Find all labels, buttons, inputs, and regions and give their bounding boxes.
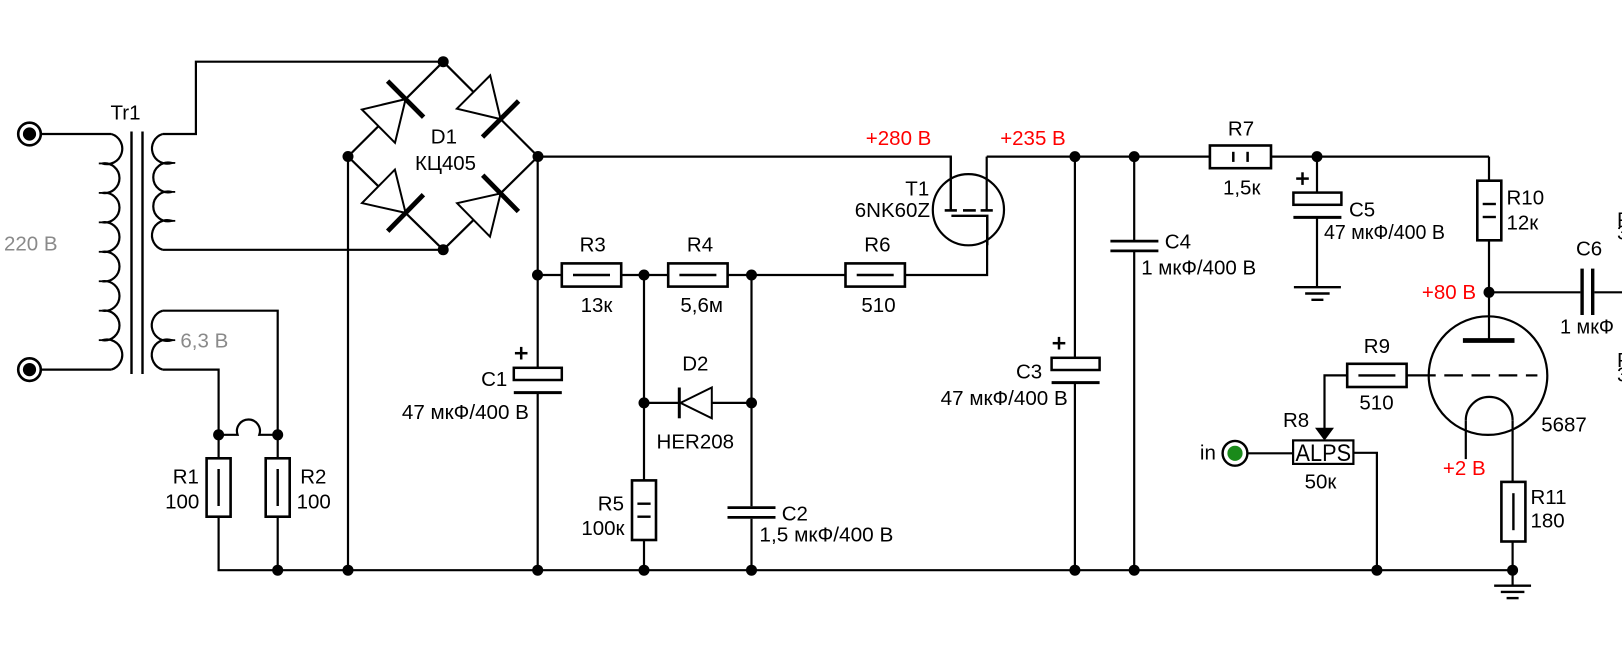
wire <box>1488 292 1490 338</box>
wire <box>1133 251 1135 570</box>
capacitor C3 <box>1016 337 1100 384</box>
svg-text:100к: 100к <box>581 517 625 540</box>
wire <box>750 519 752 570</box>
capacitor C1 <box>481 347 562 393</box>
svg-text:R2: R2 <box>300 466 326 489</box>
wire <box>1488 157 1490 182</box>
capacitor C2 <box>728 503 808 526</box>
wire (humdinger jumper) <box>219 419 278 434</box>
capacitor C5 <box>1293 172 1375 221</box>
junction (bridge top node) <box>438 56 449 67</box>
junction <box>532 565 543 576</box>
svg-text:5,6м: 5,6м <box>680 294 723 317</box>
junction <box>1371 565 1382 576</box>
svg-text:R7: R7 <box>1228 118 1254 141</box>
svg-text:C4: C4 <box>1165 231 1191 254</box>
svg-text:+235 В: +235 В <box>1000 127 1066 150</box>
junction <box>639 397 650 408</box>
terminal X2 (220 V input, bottom) <box>18 358 41 381</box>
svg-text:C5: C5 <box>1349 198 1375 221</box>
svg-text:1 мкФ: 1 мкФ <box>1560 316 1614 339</box>
wire <box>1511 420 1513 482</box>
wire <box>1074 157 1076 358</box>
wire <box>42 369 111 371</box>
svg-text:Tr1: Tr1 <box>111 102 141 125</box>
svg-text:R11: R11 <box>1531 486 1567 509</box>
svg-text:47 мкФ/400 В: 47 мкФ/400 В <box>1324 221 1445 244</box>
svg-text:D1: D1 <box>431 126 457 149</box>
svg-text:C1: C1 <box>481 368 507 391</box>
ground <box>1494 585 1531 587</box>
wire <box>538 157 951 211</box>
wire <box>750 403 752 506</box>
svg-text:R8: R8 <box>1283 409 1309 432</box>
potentiometer R8 ALPS <box>1293 440 1353 467</box>
wire <box>644 402 679 404</box>
wire <box>163 370 219 435</box>
junction (bridge left node) <box>343 151 354 162</box>
wire <box>163 62 444 134</box>
junction <box>1507 565 1518 576</box>
svg-text:180: 180 <box>1531 510 1565 533</box>
wire <box>537 275 539 368</box>
wire <box>1594 291 1622 293</box>
svg-text:13к: 13к <box>581 294 614 317</box>
svg-text:T1: T1 <box>905 178 929 201</box>
svg-text:ALPS: ALPS <box>1296 440 1352 467</box>
svg-text:R3: R3 <box>580 233 606 256</box>
svg-text:+280 В: +280 В <box>866 127 932 150</box>
wire <box>277 435 279 460</box>
svg-text:in: in <box>1200 441 1216 464</box>
wire <box>163 249 444 251</box>
wire <box>987 156 1210 158</box>
ground <box>1294 286 1341 288</box>
svg-text:100: 100 <box>165 491 199 514</box>
svg-text:47 мкФ/400 В: 47 мкФ/400 В <box>941 387 1068 410</box>
svg-text:5687: 5687 <box>1541 414 1587 437</box>
wire <box>643 275 645 403</box>
junction <box>1312 151 1323 162</box>
diode D2 <box>679 353 712 419</box>
resistor R6 <box>846 233 905 286</box>
svg-text:100: 100 <box>297 491 331 514</box>
svg-text:R9: R9 <box>1364 335 1390 358</box>
wire <box>643 403 645 481</box>
wiper arrow of R8 <box>1315 428 1334 441</box>
wire <box>1248 452 1294 454</box>
terminal input in <box>1223 441 1248 466</box>
junction <box>532 270 543 281</box>
svg-text:1,5к: 1,5к <box>1223 176 1261 199</box>
svg-text:R6: R6 <box>864 233 890 256</box>
wire <box>1489 291 1580 293</box>
resistor R9 <box>1347 335 1406 387</box>
junction (+80 В node) <box>1484 287 1495 298</box>
transformer Tr1 <box>99 102 175 375</box>
junction (bridge bottom node) <box>438 244 449 255</box>
wire <box>1465 420 1467 459</box>
svg-text:6,3 В: 6,3 В <box>180 329 228 352</box>
svg-text:1 мкФ/400 В: 1 мкФ/400 В <box>1141 257 1256 280</box>
wire <box>1074 383 1076 570</box>
svg-text:+2 В: +2 В <box>1443 457 1486 480</box>
wire <box>538 274 562 276</box>
resistor R7 <box>1210 118 1271 169</box>
resistor R1 <box>173 458 231 516</box>
svg-text:47 мкФ/400 В: 47 мкФ/400 В <box>402 401 529 424</box>
svg-text:R1: R1 <box>173 466 199 489</box>
wire <box>347 157 349 571</box>
svg-text:C3: C3 <box>1016 360 1042 383</box>
wire <box>643 540 645 570</box>
wire <box>42 133 111 135</box>
svg-text:50к: 50к <box>1305 470 1338 493</box>
wire (ground rail) <box>219 517 1513 571</box>
wire <box>905 216 987 275</box>
svg-text:D2: D2 <box>682 353 708 376</box>
junction <box>746 397 757 408</box>
svg-text:+80 В: +80 В <box>1422 281 1476 304</box>
junction <box>213 429 224 440</box>
diode bridge D1 КЦ405 <box>348 62 538 250</box>
wire <box>1354 453 1377 570</box>
wire <box>537 157 539 275</box>
svg-text:1,5 мкФ/400 В: 1,5 мкФ/400 В <box>759 523 893 546</box>
tube T1 6NK60Z <box>855 157 1004 246</box>
wire <box>712 402 752 404</box>
svg-text:КЦ405: КЦ405 <box>415 152 476 175</box>
svg-text:3: 3 <box>1617 363 1622 386</box>
svg-text:С6: С6 <box>1576 238 1602 261</box>
junction <box>272 429 283 440</box>
junction (bridge right node) <box>533 151 544 162</box>
svg-text:6NK60Z: 6NK60Z <box>855 199 930 222</box>
junction <box>1069 565 1080 576</box>
wire <box>1325 375 1347 431</box>
svg-text:R4: R4 <box>687 233 713 256</box>
wire <box>750 275 752 403</box>
wire <box>163 311 278 435</box>
svg-text:510: 510 <box>1359 392 1393 415</box>
svg-text:HER208: HER208 <box>657 430 735 453</box>
junction <box>746 270 757 281</box>
svg-text:R10: R10 <box>1507 186 1545 209</box>
junction <box>746 565 757 576</box>
resistor R4 <box>668 233 727 286</box>
junction <box>1129 565 1140 576</box>
wire <box>218 435 220 460</box>
svg-text:3: 3 <box>1617 221 1622 244</box>
wire <box>1133 157 1135 242</box>
capacitor C4 <box>1110 231 1191 254</box>
wire <box>537 393 539 571</box>
resistor R10 <box>1477 181 1544 241</box>
junction <box>639 270 650 281</box>
svg-text:220 В: 220 В <box>4 233 58 256</box>
junction <box>272 565 283 576</box>
wire <box>277 517 279 571</box>
svg-text:R5: R5 <box>598 493 624 516</box>
resistor R11 <box>1501 482 1566 542</box>
resistor R3 <box>562 233 621 286</box>
wire <box>1271 156 1489 158</box>
junction <box>1129 151 1140 162</box>
wire <box>1511 542 1513 586</box>
capacitor C6 <box>1576 238 1602 315</box>
wire <box>1316 218 1318 287</box>
junction <box>639 565 650 576</box>
wire <box>728 274 847 276</box>
svg-text:12к: 12к <box>1507 212 1540 235</box>
junction <box>343 565 354 576</box>
wire <box>1488 240 1490 292</box>
svg-text:510: 510 <box>861 294 895 317</box>
svg-text:C2: C2 <box>782 503 808 526</box>
terminal X1 (220 V input, top) <box>18 123 41 146</box>
wire <box>621 274 668 276</box>
junction <box>1069 151 1080 162</box>
resistor R2 <box>266 458 327 516</box>
wire <box>1316 157 1318 193</box>
tube U2 5687 <box>1407 316 1587 436</box>
resistor R5 <box>598 480 656 540</box>
